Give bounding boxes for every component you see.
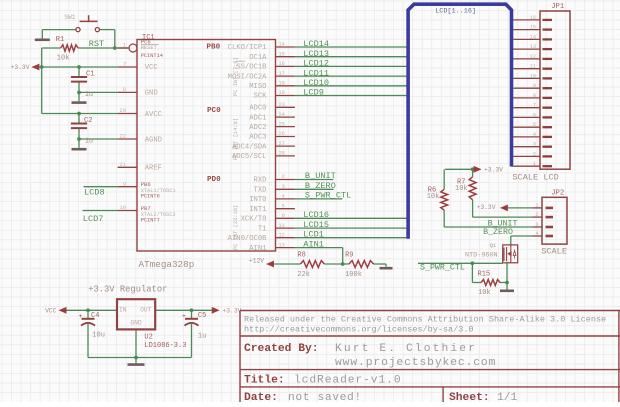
svg-text:TXD: TXD bbox=[254, 187, 267, 195]
svg-text:LCD13: LCD13 bbox=[303, 49, 329, 59]
svg-text:PCINT7: PCINT7 bbox=[141, 217, 160, 223]
svg-text:ADC5/SCL: ADC5/SCL bbox=[232, 153, 267, 161]
svg-text:B_UNIT: B_UNIT bbox=[488, 219, 518, 228]
svg-text:9: 9 bbox=[123, 181, 126, 187]
svg-text:10k: 10k bbox=[427, 193, 440, 201]
svg-text:25: 25 bbox=[278, 121, 284, 127]
svg-text:C5: C5 bbox=[198, 312, 206, 320]
svg-text:18: 18 bbox=[278, 81, 284, 87]
svg-text:SCK: SCK bbox=[254, 93, 268, 101]
svg-text:10k: 10k bbox=[455, 185, 468, 193]
svg-text:LCD[1..16]: LCD[1..16] bbox=[435, 8, 476, 16]
svg-text:LCD16: LCD16 bbox=[303, 210, 329, 220]
svg-text:8: 8 bbox=[533, 93, 536, 99]
svg-text:AIN1: AIN1 bbox=[303, 239, 324, 249]
svg-text:Title:: Title: bbox=[244, 374, 285, 386]
svg-text:B_UNIT: B_UNIT bbox=[305, 171, 336, 181]
svg-text:9: 9 bbox=[533, 83, 536, 89]
svg-text:SW1: SW1 bbox=[64, 14, 76, 21]
svg-text:7: 7 bbox=[533, 103, 536, 109]
svg-text:5: 5 bbox=[282, 203, 285, 209]
svg-text:LCD14: LCD14 bbox=[303, 39, 329, 49]
svg-text:11: 11 bbox=[278, 223, 284, 229]
svg-text:NTD-960N: NTD-960N bbox=[465, 251, 498, 259]
svg-text:INT0: INT0 bbox=[249, 196, 266, 204]
svg-text:B_ZERO: B_ZERO bbox=[483, 228, 513, 237]
svg-text:CLKO/ICP1: CLKO/ICP1 bbox=[228, 44, 267, 52]
svg-text:1: 1 bbox=[535, 203, 538, 209]
svg-text:14: 14 bbox=[278, 42, 284, 48]
svg-text:RESET: RESET bbox=[141, 45, 158, 51]
svg-text:23: 23 bbox=[278, 102, 284, 108]
svg-text:ADC1: ADC1 bbox=[249, 114, 266, 122]
svg-text:LD1086-3.3: LD1086-3.3 bbox=[144, 342, 186, 350]
svg-text:6: 6 bbox=[533, 112, 536, 118]
svg-text:PC0: PC0 bbox=[207, 107, 221, 115]
svg-text:LCD10: LCD10 bbox=[303, 78, 329, 88]
svg-text:12: 12 bbox=[530, 54, 536, 60]
svg-text:3: 3 bbox=[282, 184, 285, 190]
svg-text:PD0: PD0 bbox=[207, 176, 221, 184]
svg-text:ADC0: ADC0 bbox=[249, 105, 266, 113]
svg-text:R1: R1 bbox=[56, 36, 64, 44]
svg-text:3: 3 bbox=[533, 142, 536, 148]
svg-text:22k: 22k bbox=[297, 271, 310, 279]
svg-text:5: 5 bbox=[533, 122, 536, 128]
svg-text:not saved!: not saved! bbox=[288, 392, 362, 402]
svg-text:LCD8: LCD8 bbox=[84, 187, 105, 197]
svg-text:S_PWR_CTL: S_PWR_CTL bbox=[305, 191, 351, 201]
svg-text:1u: 1u bbox=[198, 332, 206, 340]
svg-text:2: 2 bbox=[533, 151, 536, 157]
svg-text:16: 16 bbox=[278, 61, 284, 67]
svg-text:10k: 10k bbox=[57, 54, 70, 62]
svg-text:+: + bbox=[79, 313, 83, 320]
svg-text:26: 26 bbox=[278, 131, 284, 137]
svg-text:+3.3V: +3.3V bbox=[484, 167, 503, 174]
svg-text:2: 2 bbox=[282, 174, 285, 180]
svg-text:VCC: VCC bbox=[145, 64, 159, 72]
svg-text:AREF: AREF bbox=[145, 165, 162, 173]
svg-text:AIN1: AIN1 bbox=[249, 245, 266, 253]
svg-text:lcdReader-v1.0: lcdReader-v1.0 bbox=[294, 374, 402, 386]
svg-text:7: 7 bbox=[123, 62, 126, 68]
svg-text:RST: RST bbox=[89, 39, 104, 49]
svg-text:8: 8 bbox=[123, 87, 126, 93]
svg-text:17: 17 bbox=[278, 71, 284, 77]
svg-text:24: 24 bbox=[278, 112, 284, 118]
svg-text:ATmega328p: ATmega328p bbox=[139, 259, 195, 270]
svg-text:LCD11: LCD11 bbox=[303, 68, 329, 78]
svg-text:RXD: RXD bbox=[254, 177, 267, 185]
svg-text:MOSI/OC2A: MOSI/OC2A bbox=[228, 73, 268, 81]
svg-text:Date:: Date: bbox=[244, 392, 278, 402]
svg-text:ADC2: ADC2 bbox=[249, 124, 266, 132]
svg-text:28: 28 bbox=[278, 151, 284, 157]
svg-text:XCK/T0: XCK/T0 bbox=[241, 216, 267, 224]
svg-text:4: 4 bbox=[535, 231, 538, 237]
svg-text:+3.3V: +3.3V bbox=[223, 308, 242, 315]
svg-text:3: 3 bbox=[535, 222, 538, 228]
svg-text:+: + bbox=[182, 313, 186, 320]
svg-text:14: 14 bbox=[530, 34, 536, 40]
svg-text:+3.3V Regulator: +3.3V Regulator bbox=[88, 284, 167, 294]
svg-text:LCD9: LCD9 bbox=[303, 88, 324, 98]
svg-text:+3.3V: +3.3V bbox=[11, 64, 30, 71]
svg-text:1u: 1u bbox=[85, 91, 93, 99]
svg-text:PC INT [23:16]: PC INT [23:16] bbox=[233, 205, 239, 250]
svg-text:2: 2 bbox=[535, 212, 538, 218]
svg-text:INT1: INT1 bbox=[249, 206, 266, 214]
svg-text:R9: R9 bbox=[345, 252, 353, 260]
svg-text:http://creativecommons.org/lic: http://creativecommons.org/licenses/by-s… bbox=[244, 324, 474, 334]
svg-text:AGND: AGND bbox=[145, 136, 162, 144]
svg-text:OUT: OUT bbox=[140, 306, 152, 313]
svg-text:Sheet:: Sheet: bbox=[449, 392, 490, 402]
svg-text:AVCC: AVCC bbox=[145, 111, 163, 119]
svg-text:U2: U2 bbox=[144, 334, 152, 342]
svg-text:21: 21 bbox=[120, 162, 126, 168]
svg-text:15: 15 bbox=[278, 51, 284, 57]
svg-text:11: 11 bbox=[530, 64, 536, 70]
svg-text:PCINT14: PCINT14 bbox=[141, 53, 163, 59]
svg-text:C1: C1 bbox=[86, 70, 94, 78]
svg-text:13: 13 bbox=[530, 44, 536, 50]
svg-text:GND: GND bbox=[145, 90, 158, 98]
svg-text:27: 27 bbox=[278, 141, 284, 147]
svg-text:JP1: JP1 bbox=[551, 3, 564, 11]
svg-text:LCD7: LCD7 bbox=[83, 214, 104, 224]
svg-text:C2: C2 bbox=[84, 117, 92, 125]
svg-text:SS/OC1B: SS/OC1B bbox=[236, 64, 267, 72]
svg-text:SCALE LCD: SCALE LCD bbox=[512, 172, 558, 182]
svg-text:JP2: JP2 bbox=[551, 189, 564, 197]
svg-text:VCC: VCC bbox=[45, 308, 57, 315]
svg-text:MISO: MISO bbox=[249, 83, 266, 91]
svg-text:T1: T1 bbox=[258, 225, 267, 233]
svg-text:GND: GND bbox=[130, 320, 142, 327]
svg-text:1/1: 1/1 bbox=[497, 392, 518, 402]
svg-text:10u: 10u bbox=[92, 331, 105, 339]
svg-text:1: 1 bbox=[533, 161, 536, 167]
svg-text:10: 10 bbox=[120, 205, 126, 211]
svg-text:B_ZERO: B_ZERO bbox=[305, 181, 336, 191]
svg-text:AIN0/OC0B: AIN0/OC0B bbox=[228, 235, 268, 243]
svg-text:Kurt E. Clothier: Kurt E. Clothier bbox=[335, 343, 477, 355]
svg-text:OC1A: OC1A bbox=[249, 54, 267, 62]
svg-text:4: 4 bbox=[282, 194, 285, 200]
svg-text:16: 16 bbox=[530, 15, 536, 21]
svg-text:20: 20 bbox=[120, 108, 126, 114]
svg-text:1u: 1u bbox=[85, 137, 93, 145]
svg-text:13: 13 bbox=[278, 242, 284, 248]
svg-text:ADC3: ADC3 bbox=[249, 134, 266, 142]
svg-text:10: 10 bbox=[530, 73, 536, 79]
svg-text:12: 12 bbox=[278, 232, 284, 238]
svg-text:SCALE: SCALE bbox=[541, 247, 567, 257]
svg-text:1: 1 bbox=[123, 43, 126, 49]
svg-text:ADC4/SDA: ADC4/SDA bbox=[232, 143, 267, 151]
svg-text:100k: 100k bbox=[345, 271, 362, 279]
svg-text:PB0: PB0 bbox=[207, 43, 221, 51]
svg-text:4: 4 bbox=[533, 132, 536, 138]
svg-text:S_PWR_CTL: S_PWR_CTL bbox=[420, 264, 465, 273]
svg-text:15: 15 bbox=[530, 25, 536, 31]
svg-text:Released under the Creative Co: Released under the Creative Commons Attr… bbox=[244, 314, 606, 324]
svg-text:PCINT6: PCINT6 bbox=[141, 193, 160, 199]
svg-text:LCD12: LCD12 bbox=[303, 59, 329, 69]
svg-text:Created By:: Created By: bbox=[244, 343, 319, 355]
svg-text:R15: R15 bbox=[478, 271, 491, 279]
svg-text:10k: 10k bbox=[478, 289, 491, 297]
svg-text:+3.3V: +3.3V bbox=[477, 204, 496, 211]
svg-text:Q1: Q1 bbox=[490, 243, 496, 249]
svg-text:19: 19 bbox=[278, 90, 284, 96]
svg-text:IN: IN bbox=[119, 306, 127, 313]
svg-text:R8: R8 bbox=[297, 252, 305, 260]
svg-text:C4: C4 bbox=[91, 312, 99, 320]
svg-text:+12V: +12V bbox=[249, 258, 264, 265]
svg-text:22: 22 bbox=[120, 134, 126, 140]
svg-text:6: 6 bbox=[282, 213, 285, 219]
svg-text:LCD1: LCD1 bbox=[303, 229, 324, 239]
svg-text:www.projectsbykec.com: www.projectsbykec.com bbox=[335, 357, 496, 369]
svg-text:LCD15: LCD15 bbox=[303, 220, 329, 230]
